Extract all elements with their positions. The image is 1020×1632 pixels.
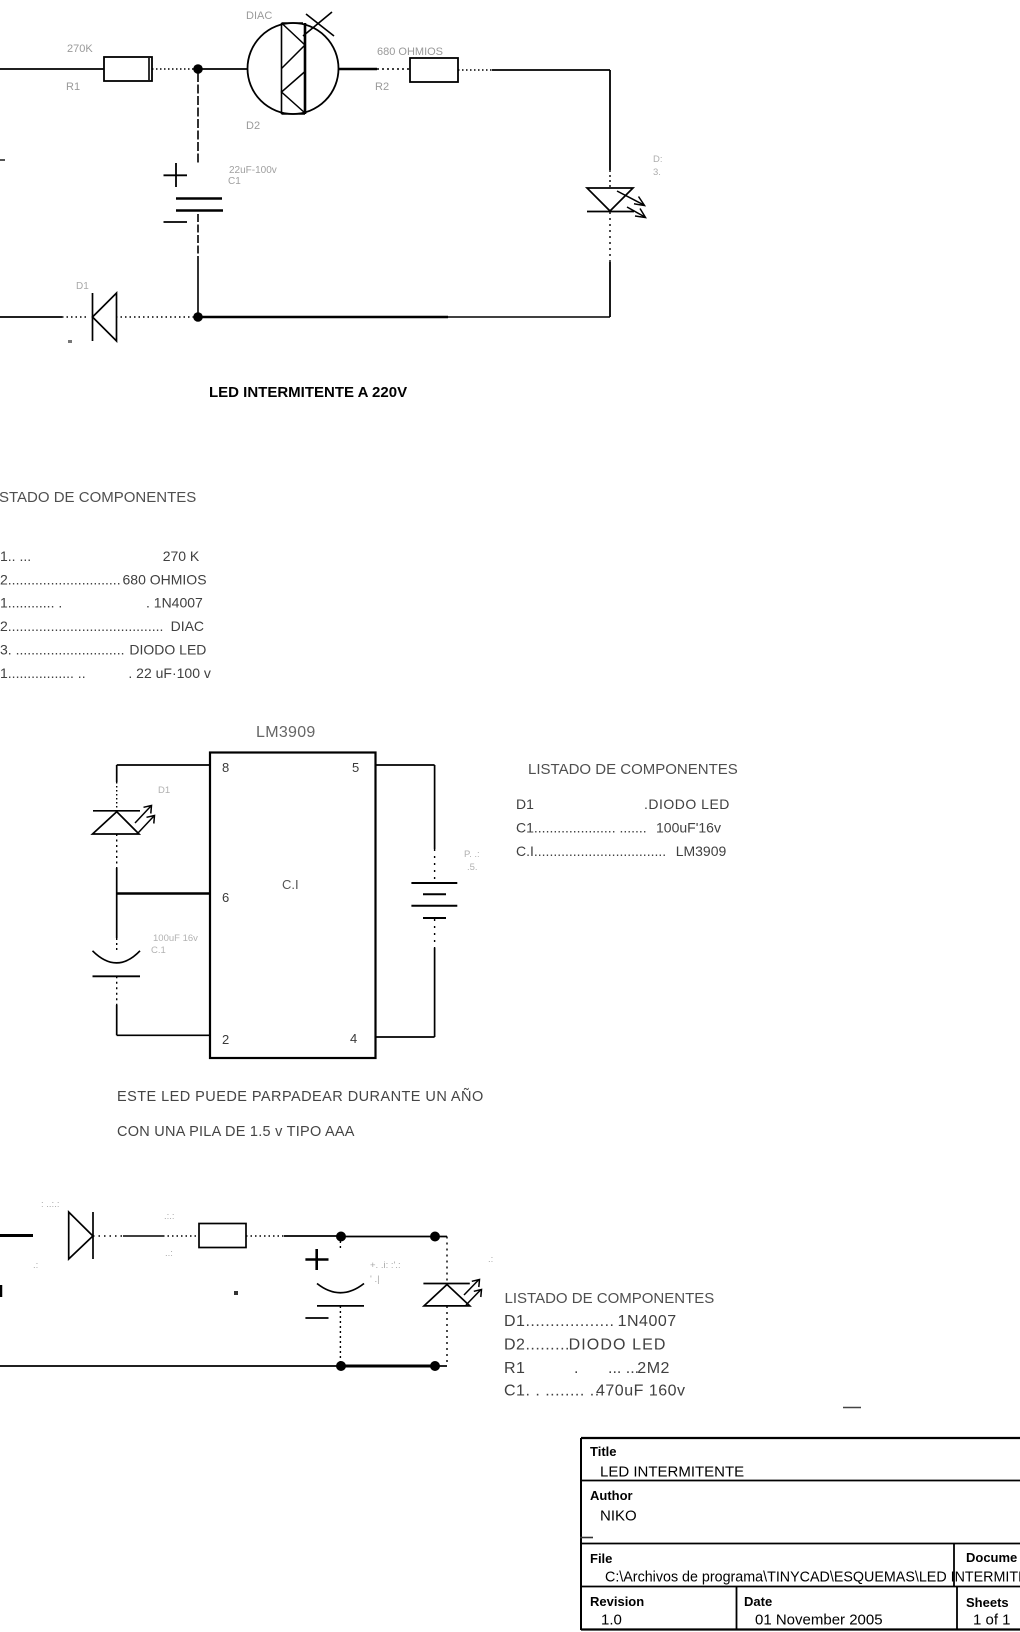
wire LED D2 to bottom rail xyxy=(446,1306,448,1366)
node junction bottom of LED D2 xyxy=(430,1361,440,1371)
svg-text:DIODO LED: DIODO LED xyxy=(129,642,206,658)
resistor R1 2M2 xyxy=(199,1224,246,1248)
wire left branch down to LED D1 xyxy=(116,765,118,810)
wire C1 to bottom rail xyxy=(339,1306,341,1366)
svg-text:D1..................: D1.................. xyxy=(504,1313,614,1330)
LED D1 (middle circuit, points up) xyxy=(93,806,155,835)
speck under D1 xyxy=(68,340,72,343)
stray dash xyxy=(843,1407,861,1409)
svg-text:CON UNA PILA DE 1.5 v TIPO AAA: CON UNA PILA DE 1.5 v TIPO AAA xyxy=(117,1124,355,1140)
svg-text:D2.........: D2......... xyxy=(504,1337,570,1354)
svg-text:1.. ...: 1.. ... xyxy=(0,548,31,564)
resistor R2 680 OHMIOS xyxy=(410,58,458,82)
svg-text:C:\Archivos de programa\TINYCA: C:\Archivos de programa\TINYCAD\ESQUEMAS… xyxy=(605,1570,1020,1586)
svg-text:..:: ..: xyxy=(165,1248,173,1259)
node junction bottom of C1 xyxy=(336,1361,346,1371)
wire diode D1 to left edge xyxy=(0,316,86,318)
capacitor C1 22uF-100v (electrolytic) xyxy=(164,163,224,222)
svg-text:File: File xyxy=(590,1551,612,1566)
svg-text:+. .i: :'.:: +. .i: :'.: xyxy=(370,1260,401,1271)
wire battery to pin 4 xyxy=(376,919,435,1037)
wire DIAC to R2 xyxy=(339,68,411,71)
svg-text:270 K: 270 K xyxy=(163,548,200,564)
svg-text:LM3909: LM3909 xyxy=(256,724,316,741)
resistor R1 270K xyxy=(104,57,152,81)
wire left stub xyxy=(0,1234,33,1237)
vertical divider sheets column xyxy=(956,1587,958,1630)
svg-text:Title: Title xyxy=(590,1444,617,1459)
svg-text:LED INTERMITENTE A 220V: LED INTERMITENTE A 220V xyxy=(209,384,407,401)
svg-text:ESTE LED PUEDE PARPADEAR DURAN: ESTE LED PUEDE PARPADEAR DURANTE UN AÑO xyxy=(117,1088,484,1105)
node junction top of C1 xyxy=(336,1232,346,1242)
bottom rail left segment xyxy=(0,1365,341,1367)
wire capacitor to bottom rail pin2 xyxy=(117,976,210,1035)
svg-text:270K: 270K xyxy=(67,43,93,55)
vertical divider date column xyxy=(736,1587,738,1630)
speck near C1 xyxy=(234,1291,238,1295)
svg-text:. 1N4007: . 1N4007 xyxy=(146,595,203,611)
wire LED D1 to pin6 node xyxy=(116,834,118,894)
svg-text:.:: .: xyxy=(488,1254,493,1265)
wire C1 branch top xyxy=(339,1241,341,1250)
svg-text:2M2: 2M2 xyxy=(637,1360,670,1377)
diode D1 (points left) xyxy=(93,293,117,341)
wire R2 to top-right corner xyxy=(458,69,610,71)
vertical divider document column xyxy=(953,1544,955,1587)
wire left lead to R1 xyxy=(0,68,104,70)
svg-text:.5.: .5. xyxy=(467,862,478,873)
svg-text:' .|: ' .| xyxy=(370,1274,380,1285)
wire R1 to node xyxy=(246,1235,341,1237)
stray dash left of author divider xyxy=(580,1537,593,1539)
bottom rail right segment xyxy=(448,316,610,318)
node junction at R1/DIAC/C1 xyxy=(193,64,203,74)
svg-text:Author: Author xyxy=(590,1488,633,1503)
svg-text:100uF 16v: 100uF 16v xyxy=(153,933,198,944)
svg-text:DIAC: DIAC xyxy=(246,10,272,22)
svg-text:R1: R1 xyxy=(504,1360,525,1377)
svg-text:Revision: Revision xyxy=(590,1594,644,1609)
svg-text:Docume: Docume xyxy=(966,1550,1017,1565)
wire C1 bottom to bottom rail xyxy=(197,214,199,313)
battery B1 PILA 1.5v xyxy=(411,883,457,918)
svg-text:1 of 1: 1 of 1 xyxy=(973,1612,1011,1629)
svg-text:470uF 160v: 470uF 160v xyxy=(596,1383,686,1400)
wire C1 branch top (dashed) xyxy=(197,73,199,164)
wire node down to capacitor C1 xyxy=(116,894,118,952)
svg-text:. 22 uF·100 v: . 22 uF·100 v xyxy=(128,665,211,681)
capacitor C1 100uF 16v (curved plate) xyxy=(93,951,141,977)
svg-text:5: 5 xyxy=(352,760,359,775)
divider under title row xyxy=(581,1480,1020,1482)
wire down to LED D2 xyxy=(446,1237,448,1284)
svg-text:DIAC: DIAC xyxy=(171,618,204,634)
svg-text:.: . xyxy=(574,1360,578,1377)
DIAC D2 xyxy=(248,12,339,114)
svg-text:P. .:: P. .: xyxy=(464,849,480,860)
svg-text:C1. . ........ ..: C1. . ........ .. xyxy=(504,1383,600,1400)
svg-text:2: 2 xyxy=(222,1032,229,1047)
svg-text:D2: D2 xyxy=(246,120,260,132)
svg-text:D:: D: xyxy=(653,154,663,165)
wire node to diode D1 (dotted) xyxy=(117,316,194,318)
svg-text:Sheets: Sheets xyxy=(966,1595,1009,1610)
svg-text:DIODO LED: DIODO LED xyxy=(569,1337,667,1354)
svg-text:3. ...........................: 3. ............................ xyxy=(0,642,124,658)
svg-text:LISTADO DE COMPONENTES: LISTADO DE COMPONENTES xyxy=(505,1290,715,1307)
wire node to pin 6 xyxy=(117,892,210,895)
svg-text:Date: Date xyxy=(744,1594,772,1609)
LED D2 (points up) xyxy=(423,1280,481,1306)
svg-text:1............ .: 1............ . xyxy=(0,595,62,611)
title block outer border xyxy=(581,1437,1020,1439)
svg-text:1.0: 1.0 xyxy=(601,1612,622,1629)
bottom rail right end xyxy=(435,1365,447,1367)
node junction top of LED D2 xyxy=(430,1232,440,1242)
diode D1 1N4007 (points right) xyxy=(69,1212,93,1259)
divider under file row xyxy=(581,1586,1020,1588)
wire LED D3 down to bottom rail xyxy=(609,212,611,317)
wire R1 to node (dotted scan) xyxy=(152,68,196,70)
bottom rail mid thick segment xyxy=(202,316,448,318)
capacitor C1 470uF 160v (electrolytic) xyxy=(305,1249,364,1318)
svg-text:22uF-100v: 22uF-100v xyxy=(229,165,277,176)
node junction bottom of C1 branch xyxy=(193,312,203,322)
svg-text:... ...: ... ... xyxy=(608,1360,639,1377)
svg-text:680 OHMIOS: 680 OHMIOS xyxy=(123,572,207,588)
svg-text:LM3909: LM3909 xyxy=(676,843,727,859)
svg-text:680 OHMIOS: 680 OHMIOS xyxy=(377,46,443,58)
svg-text:.:.:: .:.: xyxy=(164,1211,175,1222)
svg-text:C.I: C.I xyxy=(282,877,299,892)
svg-text:4: 4 xyxy=(350,1031,357,1046)
svg-text:NIKO: NIKO xyxy=(600,1508,637,1525)
svg-text:D1: D1 xyxy=(76,281,89,292)
svg-text:1N4007: 1N4007 xyxy=(618,1313,677,1330)
wire pin5 to right branch xyxy=(376,765,435,880)
svg-text:2.............................: 2.......................................… xyxy=(0,618,163,634)
svg-text:.:: .: xyxy=(33,1260,38,1271)
wire node to DIAC xyxy=(202,68,247,70)
svg-text:6: 6 xyxy=(222,890,229,905)
svg-text:R1: R1 xyxy=(66,81,80,93)
wire pin8 to left branch xyxy=(117,764,210,766)
svg-text:R2: R2 xyxy=(375,81,389,93)
svg-text:C.1: C.1 xyxy=(151,945,166,956)
wire node to LED branch xyxy=(341,1236,447,1238)
wire right side vertical down to LED D3 xyxy=(609,70,611,188)
left edge tick mark xyxy=(0,159,5,161)
bottom rail thick segment xyxy=(341,1365,435,1368)
svg-text:LED INTERMITENTE: LED INTERMITENTE xyxy=(600,1464,744,1481)
svg-text:D1: D1 xyxy=(158,785,170,796)
svg-text:3.: 3. xyxy=(653,167,661,178)
svg-text:D1: D1 xyxy=(516,796,534,812)
LED D3 xyxy=(587,188,646,218)
svg-text:C.I...........................: C.I.................................. xyxy=(516,843,666,859)
svg-text:01 November 2005: 01 November 2005 xyxy=(755,1612,883,1629)
svg-text:.DIODO LED: .DIODO LED xyxy=(644,796,730,812)
wire diode to R1 xyxy=(93,1235,199,1237)
svg-text:8: 8 xyxy=(222,760,229,775)
svg-text:C1: C1 xyxy=(228,176,241,187)
svg-text:100uF'16v: 100uF'16v xyxy=(656,820,721,836)
left edge tick xyxy=(0,1285,2,1297)
svg-text:STADO DE COMPONENTES: STADO DE COMPONENTES xyxy=(0,489,196,506)
divider under author row xyxy=(581,1543,1020,1545)
svg-text:2.............................: 2............................. xyxy=(0,572,121,588)
op-amp U1 LM3909 IC body xyxy=(210,753,376,1059)
svg-text:1................. ..: 1................. .. xyxy=(0,665,86,681)
svg-text:LISTADO DE COMPONENTES: LISTADO DE COMPONENTES xyxy=(528,761,738,778)
svg-text:: ..:.:: : ..:.: xyxy=(41,1199,59,1210)
svg-text:C1..................... ......: C1..................... ....... xyxy=(516,820,647,836)
